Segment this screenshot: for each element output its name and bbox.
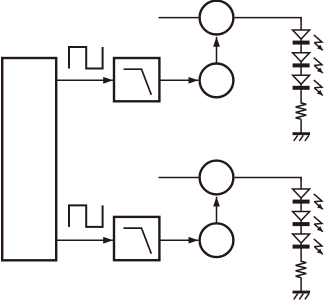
light emission arrow for LED D2.3 — [314, 239, 323, 254]
light emission arrow for LED D1.3 — [314, 80, 323, 95]
PWM waveform symbol (channel 2) — [69, 205, 103, 227]
supply rail left segment (channel 1) — [159, 17, 199, 19]
supply rail right segment to LED string (channel 1) — [235, 18, 302, 21]
V-I converter circle (channel 2) — [200, 223, 234, 257]
wire: LPF1 to V-I converter (arrow) — [159, 79, 198, 81]
V-I converter circle (channel 1) — [200, 64, 234, 98]
wire: LED string rail (1) — [300, 18, 302, 104]
low-pass filter LPF2 — [114, 217, 159, 260]
LPF1 response curve — [124, 69, 152, 95]
light emission arrow for LED D1.2 — [314, 58, 323, 73]
wire: R2 to ground — [300, 278, 302, 293]
supply rail right segment to LED string (channel 2) — [235, 178, 302, 181]
LED D2.3 — [293, 234, 310, 249]
light emission arrow for LED D2.2 — [314, 216, 323, 231]
resistor R2 — [296, 261, 307, 277]
PWM waveform symbol (channel 1) — [69, 47, 103, 69]
control arrow: V-I converter to current source (channel 2) — [216, 197, 218, 223]
LED D1.1 — [293, 30, 310, 45]
LED D2.1 — [293, 189, 310, 204]
current source circle (channel 2) — [200, 161, 234, 195]
light emission arrow for LED D1.1 — [314, 35, 323, 50]
ground (channel 2) — [293, 292, 311, 299]
control arrow: V-I converter to current source (channel 1) — [216, 37, 218, 63]
light emission arrow for LED D2.1 — [314, 194, 323, 209]
LED D1.3 — [293, 75, 310, 90]
wire: R1 to ground — [300, 119, 302, 134]
ground (channel 1) — [293, 134, 311, 141]
current source circle (channel 1) — [200, 1, 234, 35]
resistor R1 — [296, 103, 307, 119]
low-pass filter LPF1 — [114, 58, 159, 101]
wire: LED string rail (2) — [300, 178, 302, 263]
wire: IC output to LPF1 (arrow) — [57, 79, 114, 81]
LED D2.2 — [293, 212, 310, 227]
LPF2 response curve — [124, 228, 152, 254]
LED D1.2 — [293, 53, 310, 68]
driver IC block — [2, 58, 56, 260]
supply rail left segment (channel 2) — [159, 177, 199, 179]
wire: IC output to LPF2 (arrow) — [57, 239, 114, 241]
wire: LPF2 to V-I converter (arrow) — [159, 239, 198, 241]
